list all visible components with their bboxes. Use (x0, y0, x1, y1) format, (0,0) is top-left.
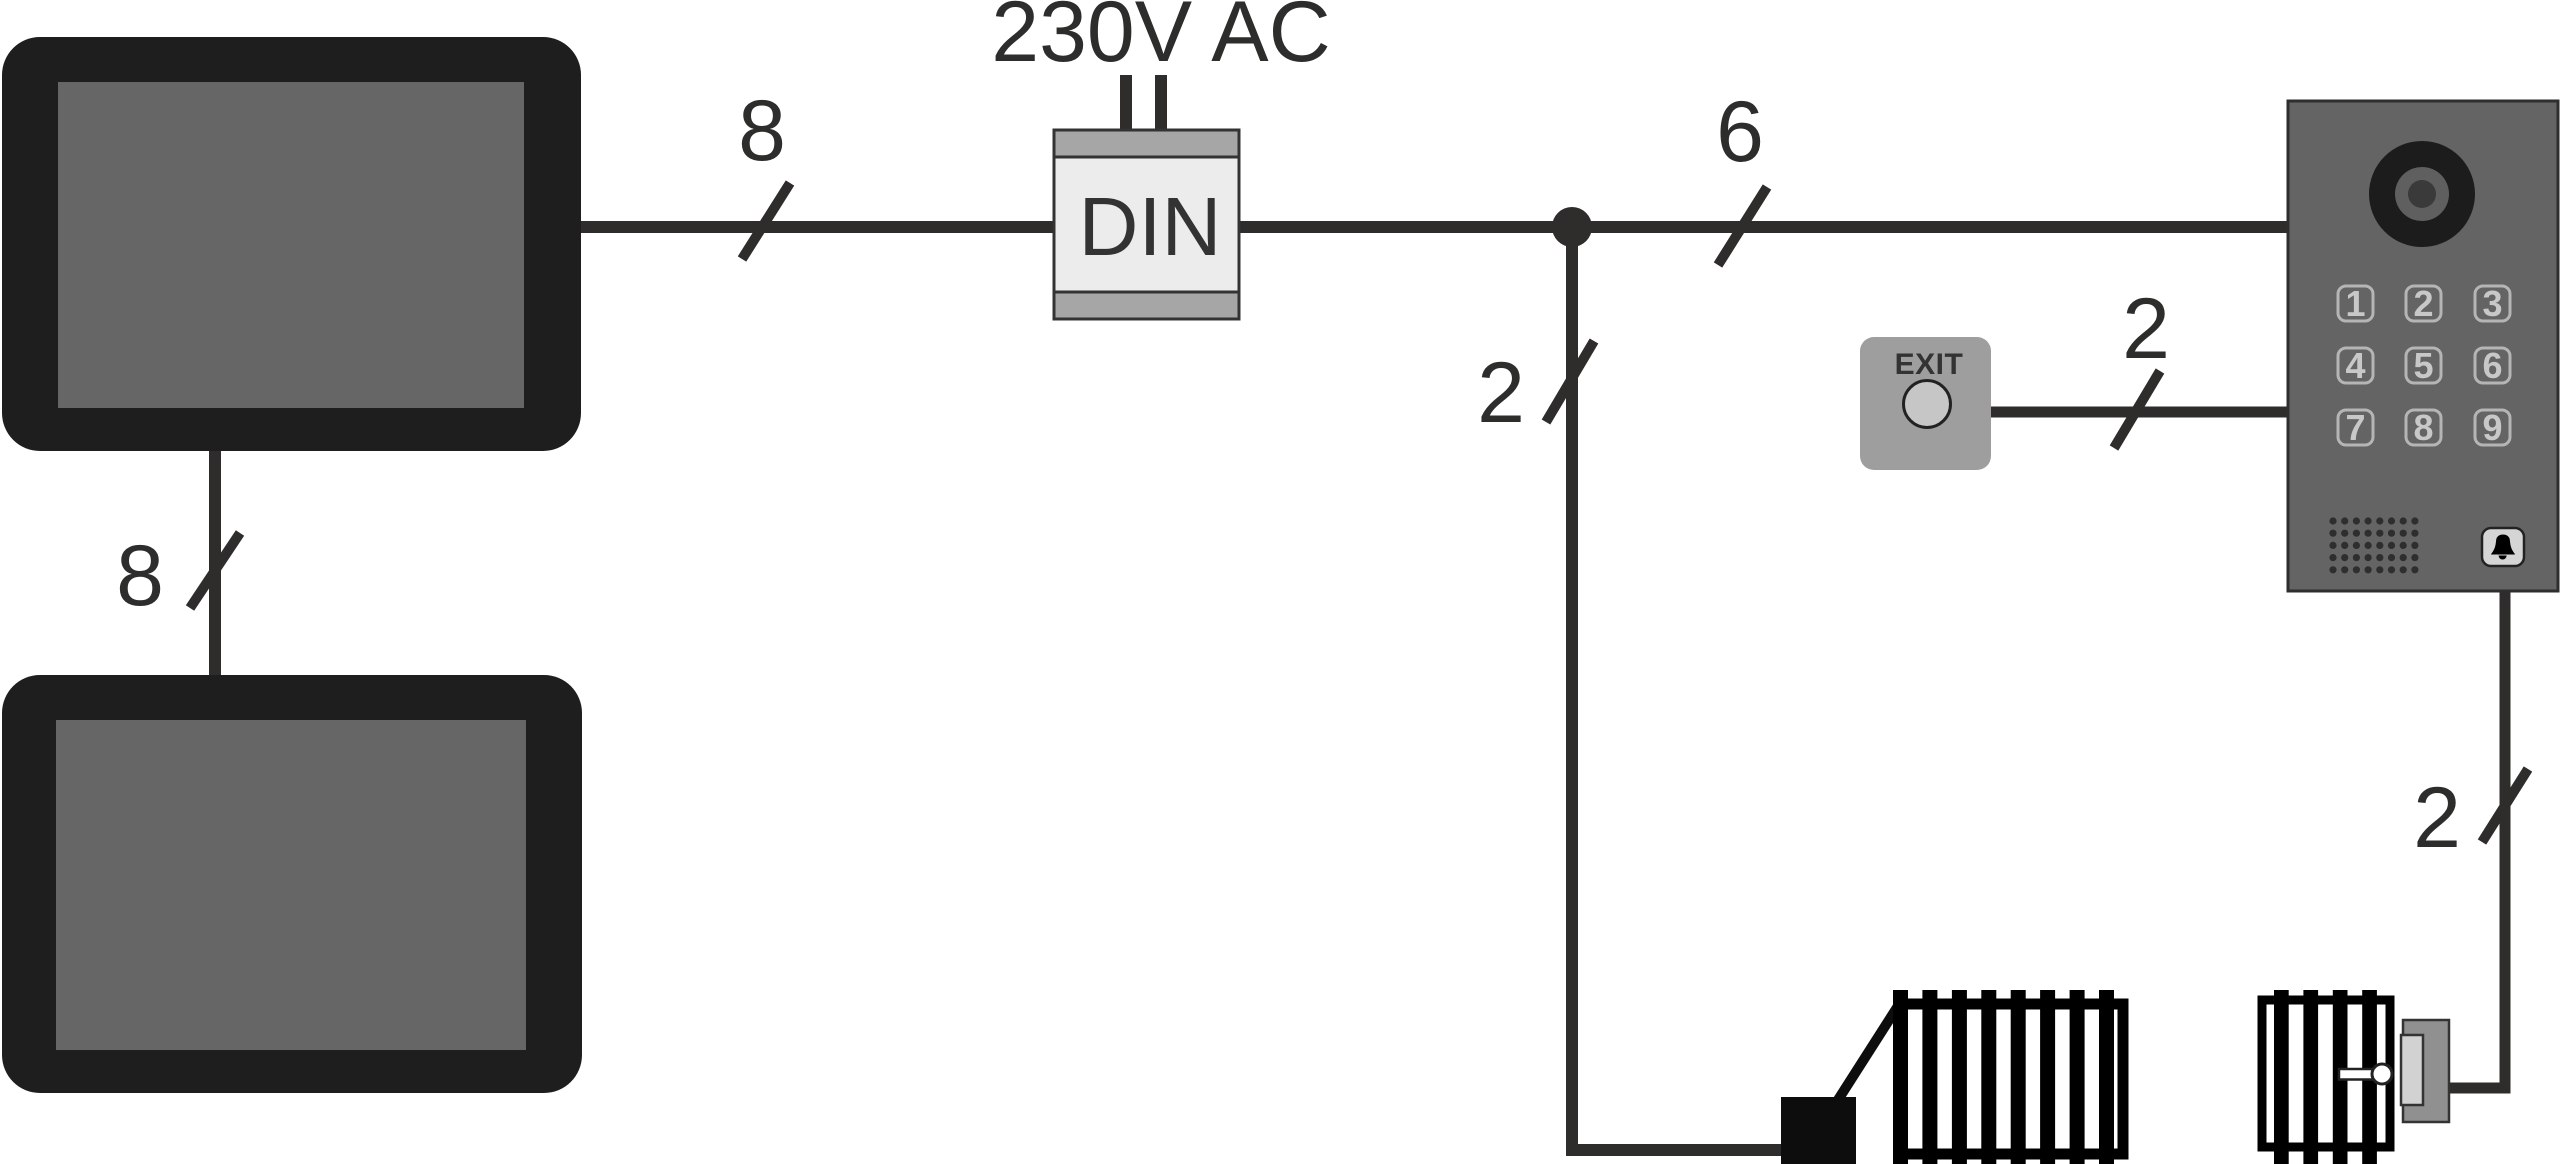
svg-text:2: 2 (2413, 770, 2461, 866)
svg-text:9: 9 (2482, 407, 2502, 448)
svg-text:8: 8 (116, 528, 164, 624)
svg-text:6: 6 (2482, 345, 2502, 386)
svg-text:4: 4 (2345, 345, 2365, 386)
svg-text:2: 2 (2413, 283, 2433, 324)
svg-text:1: 1 (2345, 283, 2365, 324)
svg-text:DIN: DIN (1079, 180, 1222, 273)
svg-text:3: 3 (2482, 283, 2502, 324)
svg-text:8: 8 (738, 83, 786, 179)
svg-text:2: 2 (2122, 281, 2170, 377)
svg-text:5: 5 (2413, 345, 2433, 386)
svg-text:230V AC: 230V AC (991, 0, 1330, 80)
svg-text:6: 6 (1716, 84, 1764, 180)
svg-text:8: 8 (2413, 407, 2433, 448)
svg-text:7: 7 (2345, 407, 2365, 448)
svg-text:2: 2 (1477, 345, 1525, 441)
svg-text:EXIT: EXIT (1895, 348, 1964, 381)
